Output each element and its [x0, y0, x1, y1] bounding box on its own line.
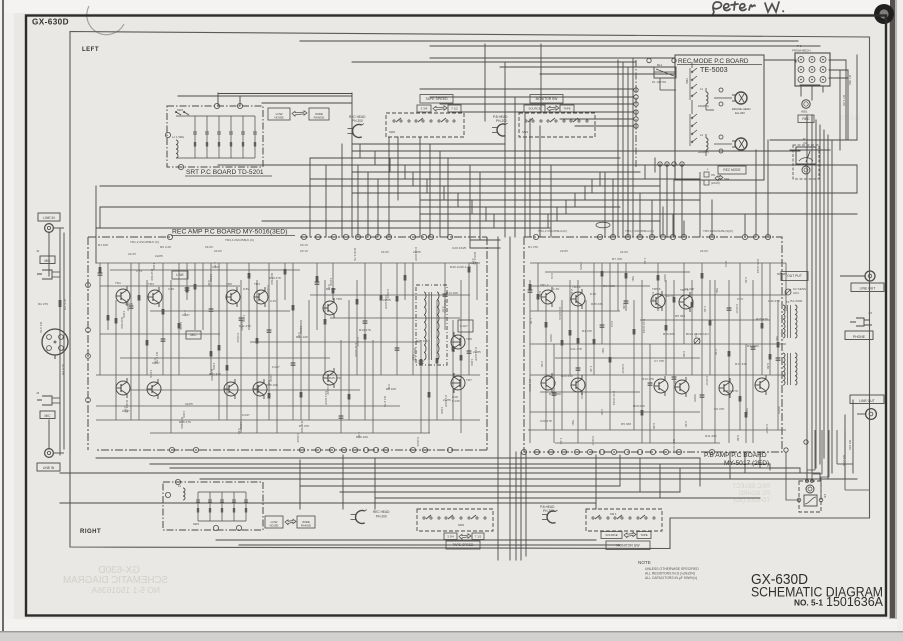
label TAPE SPEED (top) — [420, 95, 453, 104]
wire — [170, 467, 800, 469]
wire — [827, 135, 829, 479]
wire — [591, 179, 593, 193]
wire — [565, 200, 567, 214]
switch SW4-1 contact stack — [685, 68, 697, 100]
wire — [852, 400, 854, 473]
wire — [831, 140, 833, 473]
tape speed switch SW2 outline (bottom) — [417, 509, 493, 531]
selector arrow tape speed (bottom) — [459, 534, 471, 540]
label MONITOR SW (top) — [530, 95, 563, 104]
svg-text:J3: J3 — [36, 391, 40, 395]
svg-text:22/25: 22/25 — [125, 302, 133, 306]
svg-text:R19 10K: R19 10K — [356, 435, 369, 439]
svg-text:1: 1 — [46, 336, 48, 340]
coil L1 (right channel) — [178, 484, 185, 500]
svg-text:EH-360: EH-360 — [735, 111, 745, 115]
PB AMP top bus terminals — [533, 234, 770, 239]
svg-text:6.8K: 6.8K — [766, 363, 770, 370]
svg-text:6.8K: 6.8K — [622, 303, 626, 310]
wire — [367, 172, 369, 237]
svg-text:TR3,4 2SC458L6 (C): TR3,4 2SC458L6 (C) — [225, 238, 254, 242]
svg-text:R1 47K: R1 47K — [528, 245, 539, 249]
svg-text:NOTE: NOTE — [638, 560, 651, 565]
svg-text:R1 10K: R1 10K — [98, 243, 109, 247]
svg-text:R11 330: R11 330 — [705, 434, 717, 438]
bottom page margin — [6, 619, 897, 641]
wire — [375, 497, 760, 499]
wire — [529, 119, 531, 237]
svg-text:L1 1.5MH: L1 1.5MH — [172, 135, 184, 139]
wire — [800, 86, 802, 96]
label MIC (left amp) — [186, 331, 201, 339]
wire — [359, 144, 361, 158]
wire — [509, 237, 511, 560]
svg-text:C2 10/16: C2 10/16 — [558, 307, 562, 320]
svg-text:33/25: 33/25 — [777, 406, 781, 414]
svg-text:TR5: TR5 — [226, 282, 232, 286]
switch label LOW NOISE (top) — [268, 108, 290, 120]
svg-text:C29 33/25: C29 33/25 — [452, 246, 467, 250]
wire — [310, 178, 700, 180]
svg-text:TR5: TR5 — [336, 297, 342, 301]
svg-text:3.3K: 3.3K — [207, 280, 211, 287]
transistor TR1 2SC458LG — [116, 286, 130, 306]
REC AMP resistors and capacitors — [98, 267, 472, 418]
svg-text:LEFT: LEFT — [82, 47, 99, 53]
svg-text:SW4: SW4 — [685, 78, 689, 84]
svg-text:6.8K: 6.8K — [736, 435, 740, 442]
playback head PH-202 (left channel) — [492, 123, 508, 136]
selector arrow tape speed (top) — [433, 106, 447, 112]
svg-text:R40 1/2W 2.4K: R40 1/2W 2.4K — [450, 265, 472, 269]
svg-text:TR3: TR3 — [148, 282, 154, 286]
scattered component value labels (left amp) — [98, 243, 481, 447]
svg-text:0.01: 0.01 — [610, 321, 614, 327]
wire — [584, 186, 586, 200]
transistor TR1 2SC458LG (PB amp) — [541, 287, 555, 307]
wire — [839, 70, 841, 150]
wire — [673, 180, 675, 237]
svg-text:24.0V: 24.0V — [381, 250, 390, 254]
svg-text:22/25: 22/25 — [443, 398, 451, 402]
wire — [844, 415, 846, 479]
wire — [644, 165, 646, 179]
ghost mirrored text right-center — [732, 484, 770, 504]
resistor R4 4.7K label — [39, 322, 43, 334]
fuse block terminals — [797, 480, 823, 502]
wire — [500, 66, 675, 68]
wire — [539, 126, 541, 237]
svg-text:MONITOR SW: MONITOR SW — [616, 544, 640, 548]
svg-text:TR1: TR1 — [115, 281, 121, 285]
wire — [310, 157, 620, 159]
wire — [309, 158, 311, 237]
wire — [429, 144, 431, 237]
svg-text:0.015: 0.015 — [452, 399, 460, 403]
resistor R7 33K (right column) — [842, 75, 852, 107]
wire — [420, 213, 857, 215]
wire — [819, 125, 821, 464]
selector arrow (bottom left) — [285, 519, 296, 525]
svg-text:TR1,2 2SC458LG(C): TR1,2 2SC458LG(C) — [538, 229, 567, 233]
oscillator transistor TR7 — [451, 373, 465, 393]
svg-text:2.2K: 2.2K — [600, 409, 604, 416]
transistor TR6 2SC458LG (PB amp) — [654, 376, 668, 396]
wire — [262, 102, 352, 104]
wire — [300, 485, 620, 487]
wire — [178, 95, 352, 97]
wire — [815, 120, 817, 468]
REC MODE bottom terminals — [658, 162, 684, 166]
transistor TR2 2SC458LG (PB amp) — [541, 373, 555, 393]
wire — [795, 60, 797, 62]
wire — [520, 452, 522, 560]
svg-text:R17 330: R17 330 — [735, 362, 747, 366]
svg-text:22.8V: 22.8V — [560, 249, 569, 253]
bias oscillator board outline — [416, 285, 447, 365]
jack J1 LINE IN (top) — [38, 213, 64, 232]
trimmer VR1 (bias) — [694, 338, 700, 344]
svg-text:0.0047: 0.0047 — [735, 304, 739, 314]
svg-text:2.2K: 2.2K — [744, 277, 748, 284]
transistor TR5a 2SC458LG — [323, 298, 337, 318]
REC AMP internal circuit mesh — [96, 263, 480, 433]
punch hole top-right — [874, 4, 894, 24]
wire — [627, 67, 629, 237]
svg-text:R13 10K: R13 10K — [296, 335, 309, 339]
wire — [525, 452, 527, 556]
svg-text:FROM MECH: FROM MECH — [792, 49, 811, 53]
record head PH-200 (left channel) — [348, 124, 364, 138]
wire — [100, 185, 660, 187]
svg-text:R4 4.7K: R4 4.7K — [39, 322, 43, 334]
svg-text:C24 100P: C24 100P — [324, 391, 328, 405]
svg-text:7 1/2: 7 1/2 — [475, 534, 482, 538]
tape speed switch SW2 outline (top) — [386, 113, 464, 137]
wire — [479, 172, 481, 240]
svg-text:SW2: SW2 — [389, 130, 396, 134]
svg-text:0.01: 0.01 — [724, 261, 728, 267]
svg-text:R5 330: R5 330 — [621, 422, 631, 426]
svg-text:4.7K: 4.7K — [411, 354, 415, 361]
svg-text:3: 3 — [62, 336, 64, 340]
transistor TR8 2SC458LG (PB amp) — [675, 377, 689, 397]
svg-text:R13 47K: R13 47K — [209, 372, 222, 376]
trimmer capacitors C1-C5 in SRT board — [193, 116, 257, 158]
wire — [419, 137, 421, 237]
svg-text:R26 680: R26 680 — [663, 332, 675, 336]
svg-text:RANGE: RANGE — [314, 116, 325, 120]
svg-text:56K: 56K — [601, 348, 605, 354]
wire — [574, 193, 576, 207]
wire — [659, 464, 661, 498]
wire — [493, 214, 495, 228]
svg-text:ON: ON — [711, 173, 715, 177]
transistor TR7 2SC458LG (PB amp) — [679, 292, 693, 312]
indicator lamp IND1 — [801, 100, 810, 114]
switch label WIDE RANGE (bottom) — [297, 516, 315, 528]
wire — [150, 463, 770, 465]
svg-text:220(4MH): 220(4MH) — [698, 105, 709, 108]
wire — [811, 115, 813, 473]
label LINE — [172, 271, 188, 279]
label 7-1/2 ips (bottom) — [472, 533, 484, 540]
jack J7 LINE OUT (bottom) — [850, 395, 884, 419]
svg-text:1.2K: 1.2K — [643, 258, 647, 265]
output transformer T2 windings — [783, 353, 797, 385]
svg-text:56K: 56K — [571, 420, 575, 426]
svg-text:SW1: SW1 — [522, 130, 529, 134]
svg-text:F8: F8 — [823, 494, 827, 498]
svg-text:24.0V: 24.0V — [214, 249, 223, 253]
svg-text:REC AMP P.C BOARD MY-5016(3ED: REC AMP P.C BOARD MY-5016(3ED) — [172, 229, 287, 236]
svg-text:C21 47P: C21 47P — [570, 347, 582, 351]
svg-text:220(4MH): 220(4MH) — [698, 151, 709, 154]
svg-text:PHONE: PHONE — [853, 335, 866, 339]
wire — [659, 164, 661, 237]
svg-text:RANGE: RANGE — [301, 524, 311, 528]
svg-text:NO 5-1 1501636A: NO 5-1 1501636A — [91, 585, 160, 595]
wire — [639, 193, 641, 237]
note body text — [645, 567, 699, 580]
SW2 contacts (bottom) — [423, 515, 486, 527]
transistor group labels above REC AMP bus — [130, 238, 309, 249]
wire — [550, 165, 552, 237]
svg-text:ALL RESISTORS IN Ω (¼W±5%): ALL RESISTORS IN Ω (¼W±5%) — [645, 572, 695, 576]
svg-text:SW2: SW2 — [458, 523, 465, 527]
svg-text:0.047: 0.047 — [212, 265, 220, 269]
svg-text:0.047: 0.047 — [242, 413, 250, 417]
wire — [504, 62, 506, 237]
svg-text:24.0V: 24.0V — [700, 249, 709, 253]
svg-text:R7 10K: R7 10K — [386, 387, 397, 391]
wire — [822, 86, 824, 92]
playback head PH-202 (right channel) — [542, 510, 558, 523]
svg-text:C12 10/16: C12 10/16 — [612, 391, 616, 406]
transistor TR10 2SC458LG (PB amp) — [755, 375, 769, 395]
svg-text:R2 27K: R2 27K — [38, 302, 49, 306]
wire — [60, 502, 596, 504]
wire — [440, 103, 633, 105]
svg-text:1.2K: 1.2K — [529, 318, 533, 325]
svg-text:22/25: 22/25 — [413, 250, 421, 254]
svg-text:GX-630D: GX-630D — [32, 18, 69, 27]
wire — [389, 158, 391, 172]
transistor TR3 2SC458LG — [148, 287, 162, 307]
svg-text:3 3/4: 3 3/4 — [421, 107, 428, 111]
svg-text:33/25: 33/25 — [663, 274, 667, 282]
wire — [420, 88, 633, 90]
wire — [662, 207, 664, 237]
wire — [729, 452, 731, 479]
svg-text:TR8: TR8 — [466, 337, 472, 341]
wire — [217, 93, 219, 106]
resistor R3 4.7K label — [63, 298, 67, 310]
wire — [299, 460, 301, 509]
transistor reference labels (PB amp) — [540, 283, 689, 292]
wire — [60, 472, 820, 474]
PB AMP resistors and capacitors — [528, 271, 781, 418]
svg-text:R25 10K: R25 10K — [416, 339, 429, 343]
terminal on REC AMP board left edge (LINE) — [86, 283, 91, 288]
wire — [59, 228, 61, 455]
svg-text:0.027: 0.027 — [460, 324, 468, 328]
wire — [560, 118, 633, 120]
svg-text:R25 10K: R25 10K — [266, 383, 279, 387]
meter lamp — [802, 166, 810, 174]
oscillator value labels — [450, 246, 472, 403]
coil L1 1.5MH in SRT board — [176, 140, 178, 158]
svg-text:TAPE SPEED: TAPE SPEED — [425, 97, 448, 101]
svg-text:R19 47K: R19 47K — [269, 276, 282, 280]
svg-text:4: 4 — [46, 348, 48, 352]
wire — [764, 59, 796, 61]
wire — [666, 164, 668, 237]
svg-text:1.7V: 1.7V — [136, 269, 143, 273]
wire — [341, 144, 343, 237]
svg-text:R13 47K: R13 47K — [359, 328, 372, 332]
svg-text:10.7V: 10.7V — [666, 294, 675, 298]
selector arrow monitor (top) — [547, 106, 559, 112]
svg-text:SW1: SW1 — [177, 108, 184, 112]
wire — [447, 158, 449, 237]
SRT PC board outline (right channel) — [163, 482, 263, 530]
wire — [575, 125, 633, 127]
svg-text:C19 47P: C19 47P — [768, 299, 780, 303]
wire — [547, 214, 549, 228]
label REC MODE — [718, 166, 746, 174]
wires REC MODE board internal — [654, 62, 732, 156]
svg-text:3.8V: 3.8V — [168, 287, 175, 291]
svg-text:R8 680: R8 680 — [777, 272, 787, 276]
svg-text:C9 47P: C9 47P — [714, 407, 724, 411]
svg-text:0.0022: 0.0022 — [266, 285, 270, 295]
svg-text:TR1,2 2SC458L6 (C): TR1,2 2SC458L6 (C) — [130, 240, 159, 244]
scattered component value labels (PB amp) — [528, 245, 787, 454]
wire — [430, 45, 820, 47]
output transformer T1 windings — [783, 300, 797, 338]
svg-text:R7 1.2K: R7 1.2K — [842, 95, 846, 107]
wire — [397, 137, 399, 200]
svg-text:8.9V: 8.9V — [590, 292, 597, 296]
svg-text:C7 47P: C7 47P — [654, 359, 664, 363]
label TAPE (top) — [560, 105, 574, 112]
wire — [515, 452, 517, 560]
bottom scanner gray band — [0, 632, 903, 641]
svg-text:23.1V: 23.1V — [300, 243, 309, 247]
svg-text:PH-202: PH-202 — [543, 509, 554, 513]
svg-text:100K: 100K — [470, 359, 474, 367]
wire — [342, 455, 344, 509]
svg-text:R16 2.7K: R16 2.7K — [353, 248, 357, 262]
svg-text:R7 33K: R7 33K — [848, 75, 852, 86]
svg-text:R4 2.7K: R4 2.7K — [383, 396, 387, 408]
PB AMP internal circuit mesh — [528, 263, 786, 443]
svg-text:22/25: 22/25 — [155, 254, 163, 258]
VU meter M1 — [793, 137, 819, 179]
right page edge shadow — [889, 0, 898, 620]
wire — [829, 69, 848, 71]
wire — [216, 539, 596, 541]
switch label WIDE RANGE (top) — [309, 108, 329, 120]
svg-text:MIC: MIC — [44, 259, 51, 263]
svg-text:R14 680: R14 680 — [549, 392, 561, 396]
svg-text:3.3K: 3.3K — [237, 428, 241, 435]
jack J3 MIC (bottom) — [36, 391, 60, 419]
svg-text:REC MODE: REC MODE — [723, 168, 740, 172]
jack J4 LINE IN (bottom) — [37, 449, 64, 471]
wire — [699, 458, 701, 486]
svg-text:24.0V: 24.0V — [620, 250, 629, 254]
svg-text:33/25: 33/25 — [549, 334, 553, 342]
head bias labels row — [538, 229, 733, 233]
svg-text:R10 560: R10 560 — [150, 269, 154, 281]
fuse block lamp — [806, 485, 814, 493]
bias trap coil L2 — [698, 133, 709, 154]
svg-text:R3 4.7K: R3 4.7K — [63, 298, 67, 310]
label MONITOR SW (bottom) — [606, 541, 650, 550]
SRT board bus wire — [176, 115, 255, 117]
transistor TR5 2SC458LG — [226, 287, 240, 307]
svg-text:0.01: 0.01 — [694, 333, 698, 339]
svg-text:0.047: 0.047 — [122, 409, 130, 413]
terminal on REC AMP board left edge (MIC2) — [86, 398, 91, 403]
wire — [819, 473, 821, 480]
wire — [457, 193, 459, 207]
wire — [48, 420, 50, 449]
svg-text:J2: J2 — [36, 249, 40, 253]
monitor switch SW outline (bottom) — [586, 509, 662, 531]
wire — [471, 200, 473, 214]
svg-text:0.047: 0.047 — [152, 361, 160, 365]
svg-text:TR3,4 2SC458LG(C): TR3,4 2SC458LG(C) — [625, 229, 654, 233]
SRT PC board outline TD-5201 — [167, 106, 263, 167]
wire — [100, 206, 620, 208]
wire — [759, 452, 761, 468]
wire — [845, 60, 847, 140]
rec mode switch ON-OFF(LOCK) — [700, 168, 730, 186]
cable marker oval — [596, 222, 610, 228]
label 7-1/2 ips (top) — [448, 105, 461, 112]
fuse block outline F8 — [799, 481, 821, 512]
wire — [654, 158, 656, 172]
svg-text:REC HEAD: REC HEAD — [373, 510, 390, 514]
svg-text:R22 560: R22 560 — [120, 317, 124, 329]
erase head EH-360 (left) — [732, 92, 747, 104]
svg-text:4.7K: 4.7K — [441, 306, 445, 313]
wire — [357, 165, 359, 237]
svg-text:TAPE: TAPE — [640, 533, 647, 537]
svg-text:PH-200: PH-200 — [352, 119, 363, 123]
wire — [856, 165, 858, 193]
wire — [388, 137, 390, 237]
svg-text:R19 47K: R19 47K — [726, 389, 739, 393]
punch hole ghost top-left — [87, 6, 124, 35]
svg-text:P.B AMP P.C BOARD: P.B AMP P.C BOARD — [704, 452, 767, 459]
REC MODE terminals left column — [634, 88, 638, 128]
svg-text:LINE: LINE — [176, 273, 184, 277]
wire — [856, 55, 858, 140]
wire — [218, 164, 857, 166]
svg-text:0.0022: 0.0022 — [416, 437, 420, 447]
wire — [48, 232, 50, 276]
fuse box — [804, 495, 817, 506]
svg-text:2.2K: 2.2K — [684, 421, 688, 428]
wire — [540, 73, 675, 75]
SW1 switch contacts in SRT board — [175, 108, 189, 115]
wire — [95, 186, 97, 263]
svg-text:10/16: 10/16 — [179, 322, 183, 330]
